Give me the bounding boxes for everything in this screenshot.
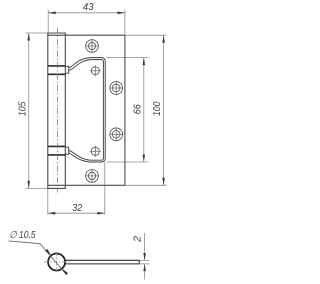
svg-text:∅ 10,5: ∅ 10,5	[9, 230, 36, 241]
svg-text:66: 66	[133, 104, 144, 114]
svg-text:2: 2	[132, 236, 143, 244]
svg-text:32: 32	[72, 203, 82, 214]
svg-text:43: 43	[83, 2, 94, 13]
svg-text:105: 105	[17, 101, 28, 116]
svg-text:100: 100	[152, 101, 163, 116]
